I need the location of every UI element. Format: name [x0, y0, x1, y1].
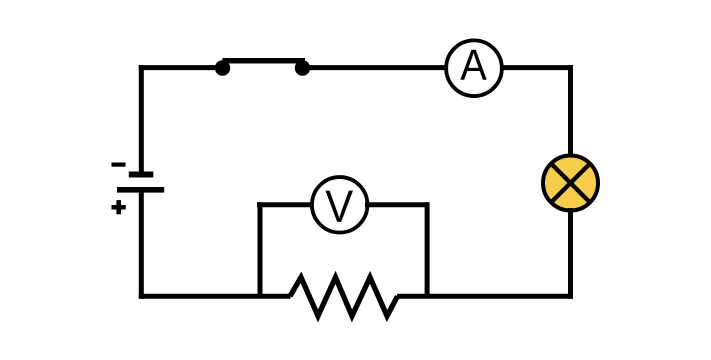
- battery B1 plus label horizontal: [112, 205, 126, 210]
- wire voltmeter loop right vertical: [425, 202, 430, 296]
- wire top-left horizontal: [139, 65, 223, 70]
- wire right vertical upper: [568, 65, 573, 158]
- wire voltmeter loop top right: [365, 202, 429, 207]
- wire left vertical upper: [139, 65, 144, 174]
- switch S1 blade: [223, 58, 306, 63]
- wire voltmeter loop top left: [257, 202, 315, 207]
- wire bottom right horizontal: [397, 294, 573, 299]
- ammeter U1 label A: [460, 50, 486, 80]
- battery B1 negative plate (short): [129, 172, 154, 178]
- switch S1 contact dot left: [215, 60, 230, 75]
- wire voltmeter loop left vertical: [258, 202, 263, 296]
- battery B1 minus label: [112, 163, 126, 167]
- voltmeter U2 circle: [312, 177, 368, 233]
- wire left vertical lower: [139, 189, 144, 299]
- wire bottom left horizontal: [139, 294, 291, 299]
- lamp L1 cross stroke 2: [552, 165, 588, 201]
- voltmeter U2 label V: [325, 191, 352, 222]
- switch S1 contact dot right: [295, 60, 310, 75]
- ammeter U1 circle: [446, 40, 502, 96]
- battery B1 plus label vertical: [116, 200, 121, 214]
- lamp L1 body: [543, 156, 598, 211]
- resistor R1 zigzag: [290, 277, 398, 316]
- battery B1 positive plate (long): [117, 187, 164, 193]
- wire switch to ammeter: [303, 65, 447, 70]
- lamp L1 cross stroke 1: [552, 165, 588, 201]
- wire ammeter to top-right corner: [502, 65, 573, 70]
- wire right vertical lower: [568, 208, 573, 299]
